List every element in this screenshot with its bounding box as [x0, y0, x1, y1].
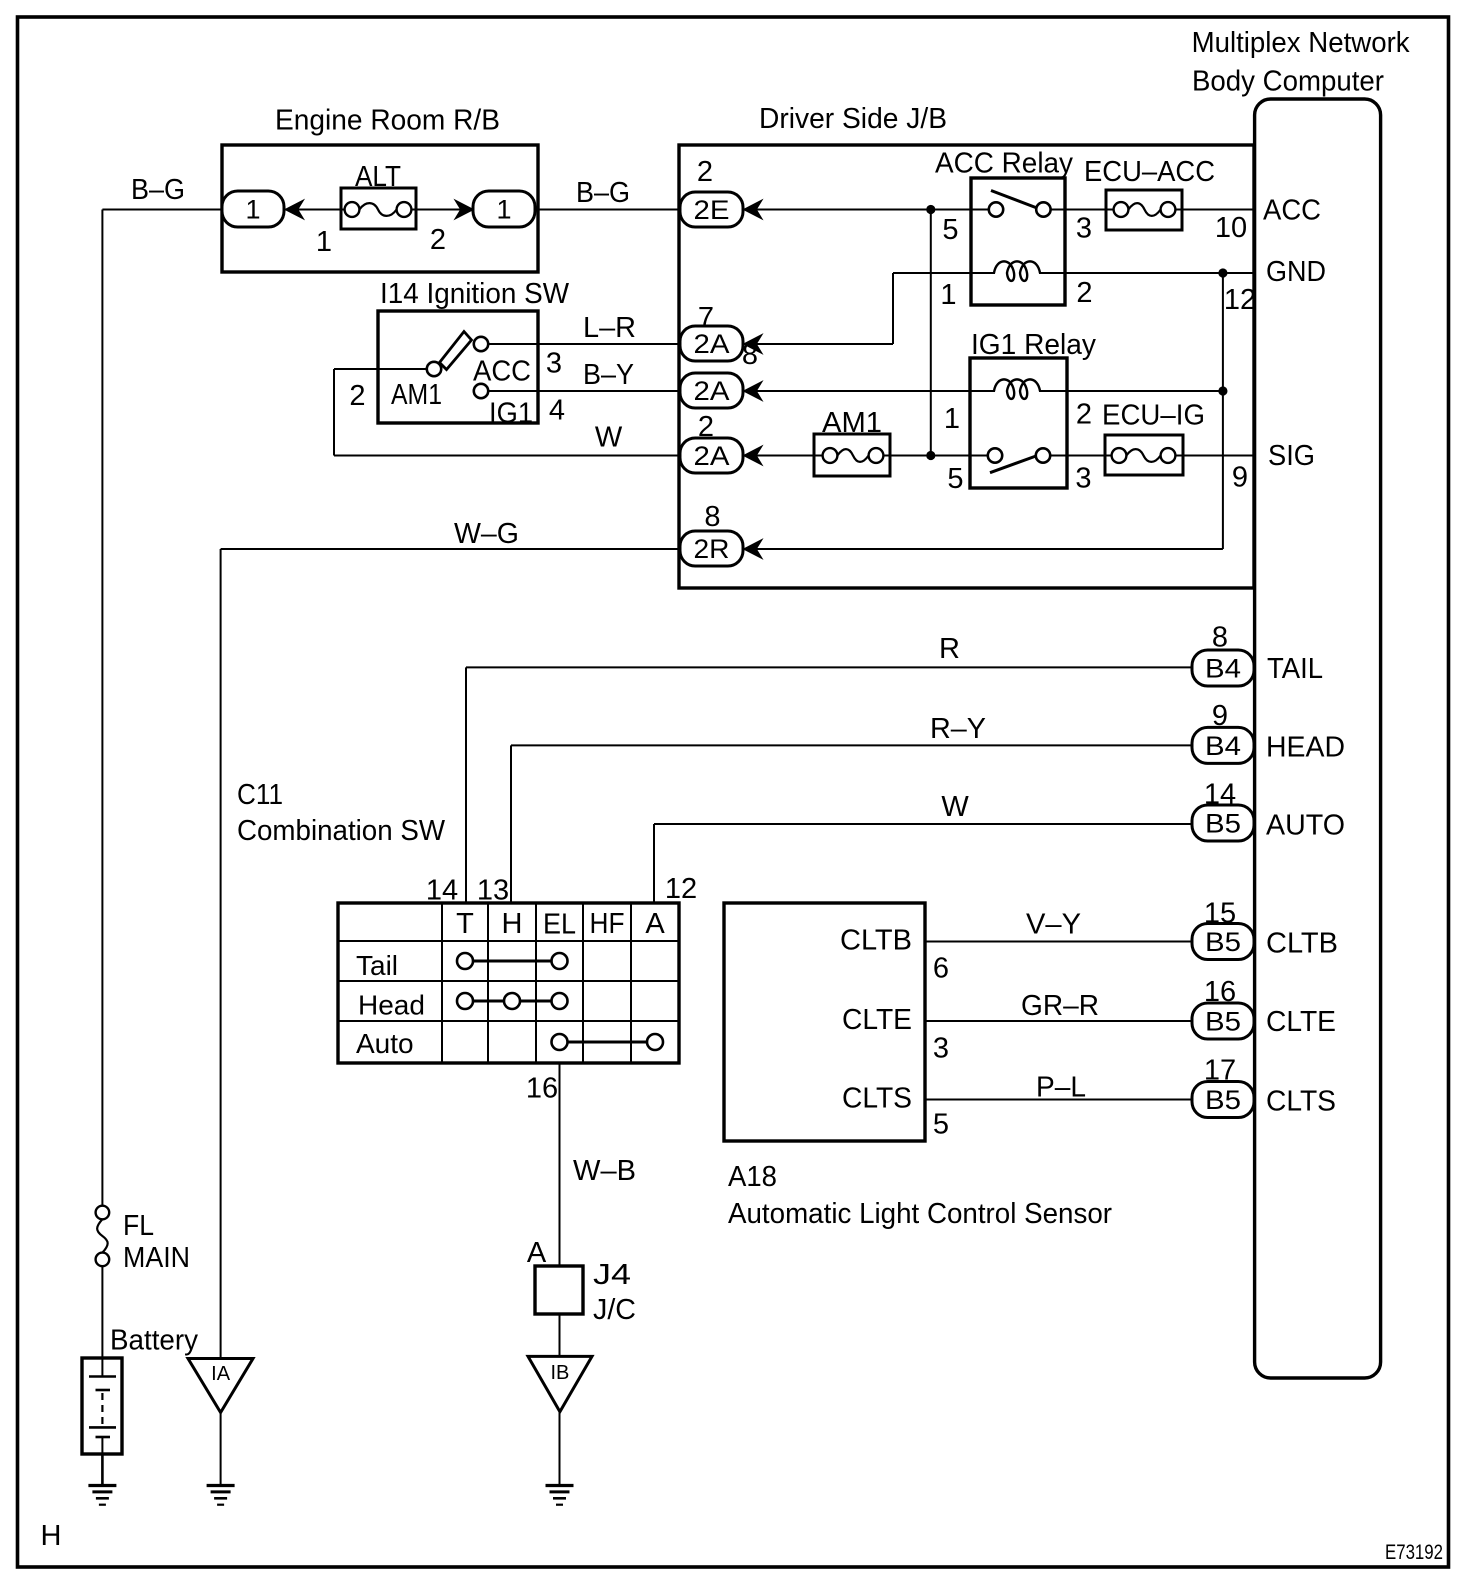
- svg-text:4: 4: [549, 395, 565, 427]
- svg-text:9: 9: [1212, 700, 1228, 732]
- svg-text:Automatic Light Control Sensor: Automatic Light Control Sensor: [728, 1198, 1112, 1230]
- svg-text:R–Y: R–Y: [930, 713, 986, 745]
- svg-text:E73192: E73192: [1385, 1541, 1443, 1564]
- svg-text:IG1: IG1: [489, 398, 533, 430]
- svg-text:CLTB: CLTB: [840, 925, 912, 957]
- svg-text:SIG: SIG: [1268, 440, 1315, 472]
- svg-text:CLTS: CLTS: [1266, 1086, 1336, 1118]
- svg-text:Tail: Tail: [356, 950, 398, 981]
- svg-text:W–B: W–B: [573, 1155, 636, 1187]
- svg-text:2A: 2A: [694, 376, 730, 406]
- svg-text:Battery: Battery: [110, 1325, 198, 1357]
- svg-text:3: 3: [1075, 463, 1091, 495]
- svg-text:2: 2: [698, 411, 714, 443]
- svg-text:1: 1: [940, 279, 956, 311]
- svg-text:15: 15: [1204, 898, 1236, 930]
- svg-text:B5: B5: [1205, 1085, 1241, 1115]
- svg-text:I14 Ignition SW: I14 Ignition SW: [380, 278, 570, 310]
- svg-text:HEAD: HEAD: [1266, 732, 1345, 764]
- svg-text:FL: FL: [123, 1210, 154, 1242]
- svg-text:B4: B4: [1205, 654, 1241, 684]
- svg-text:B5: B5: [1205, 809, 1241, 839]
- svg-text:Head: Head: [358, 990, 425, 1021]
- svg-text:1: 1: [316, 226, 332, 258]
- svg-text:2: 2: [1076, 399, 1092, 431]
- svg-text:V–Y: V–Y: [1026, 909, 1081, 941]
- svg-text:16: 16: [526, 1073, 558, 1105]
- svg-text:12: 12: [665, 873, 697, 905]
- svg-text:2: 2: [697, 156, 713, 188]
- svg-text:3: 3: [933, 1033, 949, 1065]
- svg-text:Body Computer: Body Computer: [1192, 66, 1384, 98]
- svg-text:C11: C11: [237, 779, 283, 811]
- svg-text:16: 16: [1204, 976, 1236, 1008]
- svg-text:W–G: W–G: [454, 518, 519, 550]
- svg-text:1: 1: [245, 195, 260, 225]
- svg-text:TAIL: TAIL: [1267, 653, 1323, 685]
- svg-text:AUTO: AUTO: [1266, 810, 1345, 842]
- svg-text:R: R: [939, 633, 960, 665]
- svg-text:ECU–IG: ECU–IG: [1102, 400, 1205, 432]
- svg-text:B5: B5: [1205, 1007, 1241, 1037]
- svg-text:H: H: [502, 908, 523, 940]
- svg-text:ECU–ACC: ECU–ACC: [1084, 156, 1215, 188]
- svg-text:B–Y: B–Y: [583, 359, 634, 391]
- svg-text:8: 8: [704, 501, 720, 533]
- svg-text:A: A: [645, 908, 665, 940]
- svg-text:IA: IA: [211, 1363, 231, 1385]
- svg-text:GND: GND: [1266, 256, 1326, 288]
- svg-text:5: 5: [947, 463, 963, 495]
- svg-text:HF: HF: [590, 908, 625, 940]
- svg-text:Engine Room R/B: Engine Room R/B: [275, 105, 500, 137]
- svg-text:Auto: Auto: [356, 1028, 414, 1059]
- svg-text:ACC: ACC: [1263, 195, 1321, 227]
- svg-text:17: 17: [1204, 1055, 1236, 1087]
- svg-text:13: 13: [477, 875, 509, 907]
- svg-text:IB: IB: [550, 1362, 569, 1384]
- svg-text:2: 2: [349, 380, 365, 412]
- svg-text:B5: B5: [1205, 927, 1241, 957]
- svg-text:2: 2: [430, 224, 446, 256]
- svg-text:14: 14: [1204, 779, 1236, 811]
- svg-text:MAIN: MAIN: [123, 1242, 190, 1274]
- svg-text:3: 3: [1076, 213, 1092, 245]
- svg-text:EL: EL: [543, 909, 576, 941]
- svg-text:14: 14: [426, 875, 458, 907]
- svg-text:CLTE: CLTE: [842, 1004, 912, 1036]
- svg-text:Multiplex Network: Multiplex Network: [1192, 27, 1410, 59]
- svg-text:A: A: [527, 1237, 547, 1269]
- svg-text:1: 1: [496, 195, 511, 225]
- svg-text:P–L: P–L: [1036, 1072, 1086, 1104]
- svg-text:B–G: B–G: [131, 174, 185, 206]
- svg-text:2A: 2A: [694, 441, 730, 471]
- svg-text:1: 1: [944, 403, 960, 435]
- svg-text:10: 10: [1215, 212, 1247, 244]
- svg-text:AM1: AM1: [822, 407, 882, 439]
- svg-text:ALT: ALT: [355, 161, 401, 193]
- svg-text:CLTS: CLTS: [842, 1083, 912, 1115]
- svg-text:2: 2: [1076, 277, 1092, 309]
- svg-text:6: 6: [933, 953, 949, 985]
- svg-text:L–R: L–R: [583, 312, 636, 344]
- svg-text:IG1 Relay: IG1 Relay: [971, 329, 1096, 361]
- svg-text:AM1: AM1: [391, 379, 442, 411]
- svg-text:W: W: [941, 791, 969, 823]
- svg-text:GR–R: GR–R: [1021, 990, 1099, 1022]
- svg-text:ACC Relay: ACC Relay: [935, 148, 1073, 180]
- svg-text:2R: 2R: [694, 534, 730, 564]
- svg-text:9: 9: [1232, 462, 1248, 494]
- svg-text:ACC: ACC: [473, 356, 531, 388]
- svg-text:3: 3: [546, 348, 562, 380]
- svg-text:J/C: J/C: [593, 1294, 636, 1326]
- svg-text:B–G: B–G: [576, 177, 630, 209]
- svg-text:Driver Side J/B: Driver Side J/B: [759, 103, 947, 135]
- svg-text:H: H: [41, 1520, 62, 1552]
- svg-text:A18: A18: [728, 1161, 777, 1193]
- svg-text:5: 5: [942, 214, 958, 246]
- svg-text:2E: 2E: [694, 195, 730, 225]
- svg-text:CLTB: CLTB: [1266, 928, 1338, 960]
- svg-text:W: W: [595, 422, 623, 454]
- svg-text:8: 8: [1212, 622, 1228, 654]
- svg-text:CLTE: CLTE: [1266, 1006, 1336, 1038]
- svg-text:B4: B4: [1205, 731, 1241, 761]
- svg-text:J4: J4: [593, 1259, 631, 1291]
- svg-text:12: 12: [1224, 284, 1256, 316]
- svg-text:Combination SW: Combination SW: [237, 815, 446, 847]
- svg-text:7: 7: [698, 302, 714, 334]
- svg-text:T: T: [456, 908, 474, 940]
- svg-text:5: 5: [933, 1109, 949, 1141]
- svg-text:8: 8: [742, 339, 758, 371]
